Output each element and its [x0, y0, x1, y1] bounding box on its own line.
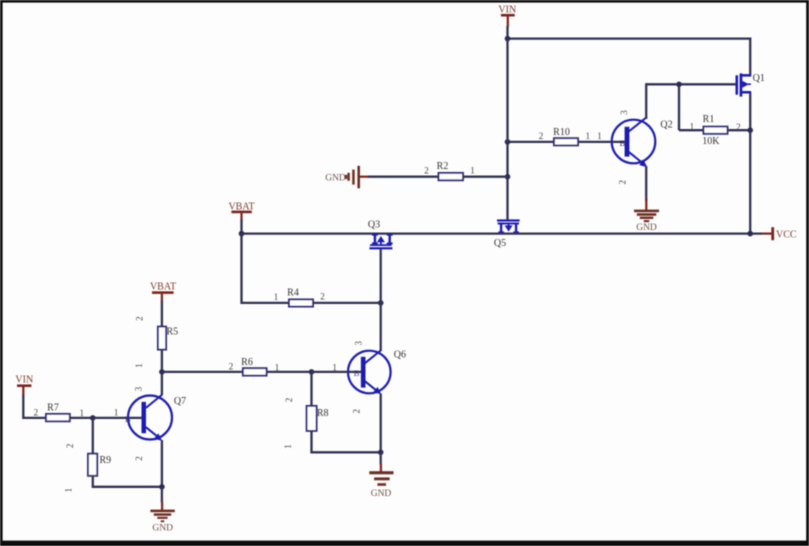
svg-text:B: B: [125, 414, 131, 424]
node R5/R6/Q7-collector junction: [159, 369, 165, 375]
svg-text:R2: R2: [437, 161, 449, 172]
node gate/R1 tee: [676, 82, 682, 88]
wire R6 pin1 to R8 tee: [267, 371, 312, 373]
svg-text:R4: R4: [287, 287, 299, 298]
power port VBAT (above R5): [150, 281, 176, 301]
power port VIN (top): [498, 5, 516, 27]
power port VIN (left): [15, 374, 33, 395]
node R1/Q1 drain junction: [747, 127, 753, 133]
node Q6 emitter/R8 junction: [378, 450, 384, 456]
wire R7 pin1 to R9 tee: [70, 417, 93, 419]
svg-text:Q6: Q6: [394, 349, 406, 360]
svg-text:1: 1: [470, 165, 475, 175]
wire tee to Q6 base: [312, 371, 362, 373]
wire R1 pin1 lead: [679, 129, 704, 131]
resistor R7: [46, 414, 70, 421]
node Q1 drain on rail: [747, 231, 753, 237]
svg-text:GND: GND: [371, 489, 392, 499]
transistor Q7 (NPN): [125, 386, 186, 461]
wire Q7 collector vertical: [161, 372, 163, 395]
svg-text:Q2: Q2: [660, 120, 672, 131]
node R6/R8/Q6-base tee: [309, 369, 315, 375]
svg-text:R5: R5: [166, 326, 178, 337]
resistor R2: [439, 173, 464, 180]
svg-text:GND: GND: [152, 523, 173, 533]
node R4/Q3-gate/Q6-collector junction: [378, 300, 384, 306]
wire R6 pin2 lead: [162, 371, 244, 373]
resistor R4: [289, 299, 313, 306]
svg-text:1: 1: [585, 131, 590, 141]
ground GND (below Q2): [634, 199, 659, 233]
svg-text:GND: GND: [325, 173, 346, 183]
wire R8 bottom to Q6 emitter: [310, 451, 380, 453]
svg-text:2: 2: [65, 444, 75, 449]
svg-text:Q3: Q3: [368, 219, 380, 230]
wire VIN stub down to tee: [506, 26, 508, 40]
wire VBAT stub to rail: [240, 220, 242, 234]
svg-text:1: 1: [597, 131, 602, 141]
svg-text:Q5: Q5: [494, 238, 506, 249]
svg-text:GND: GND: [636, 223, 657, 233]
transistor Q3 (MOSFET, gate down): [368, 219, 393, 249]
node R10 tee on VIN vertical: [505, 139, 511, 145]
ground GND (below Q7): [150, 502, 174, 533]
resistor R10: [554, 138, 578, 145]
wire VIN vertical trunk: [506, 39, 508, 220]
wire R5 pin1 lead: [161, 350, 163, 372]
svg-text:Q1: Q1: [753, 73, 765, 84]
svg-text:1: 1: [690, 122, 695, 132]
resistor R6: [243, 368, 267, 375]
border frame (decorative): [0, 0, 809, 3]
resistor R9: [88, 454, 97, 476]
wire Q7 emitter to ground: [161, 487, 163, 503]
wire R9 pin1 lead: [92, 476, 94, 487]
wire R8 pin2 drop: [310, 372, 312, 406]
svg-text:1: 1: [80, 408, 85, 418]
wire R1 pin1 vertical drop: [678, 83, 680, 130]
svg-text:2: 2: [320, 292, 325, 302]
svg-text:10K: 10K: [702, 136, 720, 147]
wire Q3 gate leg down to R4 node and Q6 collector: [380, 249, 382, 351]
transistor Q1 (PMOS): [736, 73, 765, 97]
svg-text:2: 2: [284, 398, 294, 403]
wire GND to R2 pin2: [368, 176, 439, 178]
power port VCC: [762, 227, 797, 240]
node Q7 emitter/R9 junction: [159, 484, 165, 490]
wire R10 pin2 lead from VIN vertical: [508, 141, 555, 143]
ground GND (below Q6): [369, 464, 393, 500]
svg-text:VBAT: VBAT: [150, 281, 176, 292]
svg-text:2: 2: [134, 456, 144, 461]
svg-text:2: 2: [134, 316, 144, 321]
wire Q1 source drop: [749, 38, 751, 77]
transistor Q5 (MOSFET, gate up): [494, 219, 520, 249]
wire R2 pin1 to VIN vertical: [463, 176, 508, 178]
svg-text:Q7: Q7: [174, 396, 186, 407]
svg-text:R6: R6: [241, 357, 253, 368]
svg-text:2: 2: [34, 407, 39, 417]
wire VBAT to R5 pin2: [161, 301, 163, 328]
wire R4 pin2 to Q3 gate leg: [313, 302, 381, 304]
svg-text:R7: R7: [47, 403, 59, 414]
transistor Q6 (NPN): [348, 340, 406, 413]
node VIN tee junction: [505, 36, 511, 42]
wire Q2 emitter vertical: [645, 166, 647, 201]
svg-text:3: 3: [134, 386, 144, 391]
wire Q2 collector vertical: [645, 83, 647, 119]
svg-text:3: 3: [354, 340, 364, 345]
svg-text:1: 1: [283, 444, 293, 449]
power port VBAT (rail left end): [228, 201, 254, 220]
svg-text:2: 2: [351, 409, 361, 414]
svg-text:R8: R8: [317, 408, 329, 419]
wire R1 pin2 lead: [728, 129, 751, 131]
wire Q6 emitter to ground: [380, 452, 382, 464]
svg-text:2: 2: [539, 131, 544, 141]
ground GND (left of R2, sideways): [325, 166, 368, 189]
node VBAT rail junction: [239, 231, 245, 237]
wire main VBAT/VCC rail: [242, 232, 763, 234]
svg-text:1: 1: [114, 407, 119, 417]
wire top rail VIN tee to Q1 source corner: [506, 37, 751, 39]
resistor R1: [704, 127, 728, 134]
svg-text:VCC: VCC: [776, 230, 797, 241]
svg-text:R10: R10: [553, 127, 570, 138]
wire VIN down and to R7: [23, 395, 46, 418]
svg-text:VIN: VIN: [15, 374, 33, 385]
svg-text:R1: R1: [703, 114, 715, 125]
wire R9 pin2 drop: [92, 418, 94, 454]
svg-text:2: 2: [618, 180, 628, 185]
svg-text:R9: R9: [99, 455, 111, 466]
wire Q1 gate horizontal from Q2 collector node: [646, 83, 736, 85]
svg-text:1: 1: [64, 488, 74, 493]
node R2 tee on VIN vertical: [505, 174, 511, 180]
transistor Q2 (NPN): [612, 110, 673, 185]
resistor R5: [158, 327, 166, 350]
wire Q1 drain down to VCC rail: [749, 92, 751, 235]
resistor R8: [307, 406, 317, 431]
wire Q7 emitter vertical: [161, 440, 163, 487]
wire tee to Q7 base: [93, 417, 142, 419]
wire R9 bottom to Q7 emitter: [92, 486, 162, 488]
svg-text:2: 2: [424, 166, 429, 176]
wire VBAT down leg to R4: [240, 234, 242, 303]
wire R4 pin1 lead: [240, 302, 289, 304]
svg-text:3: 3: [619, 110, 629, 115]
svg-text:1: 1: [134, 363, 144, 368]
wire R10 pin1 to Q2 base: [578, 141, 625, 143]
node R7/R9/Q7-base tee: [90, 415, 96, 421]
svg-text:2: 2: [229, 362, 234, 372]
wire R8 pin1 lead: [310, 431, 312, 452]
svg-text:1: 1: [274, 292, 279, 302]
wire Q6 emitter vertical: [380, 394, 382, 453]
